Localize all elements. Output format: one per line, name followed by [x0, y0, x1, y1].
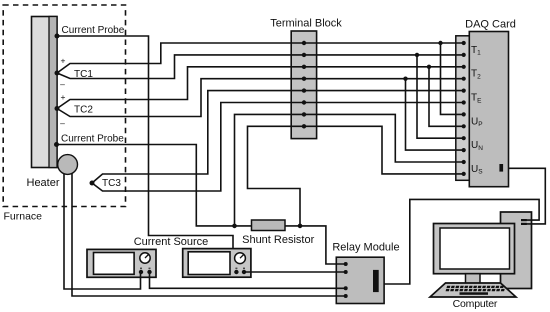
- svg-text:Heater: Heater: [27, 177, 60, 189]
- branch wire row4 to DAQ UN-: [406, 79, 464, 150]
- svg-text:+: +: [61, 55, 66, 65]
- shunt resistor body: [252, 220, 286, 231]
- heater disc: [58, 155, 78, 175]
- keyboard keys: [446, 286, 505, 295]
- DAQ card body: [469, 32, 508, 187]
- monitor stand neck: [466, 274, 481, 287]
- current probe 1 wire: [57, 36, 233, 249]
- junction node row3/UP-: [427, 65, 431, 69]
- svg-text:Furnace: Furnace: [4, 211, 43, 223]
- TC1 negative wire: [57, 55, 464, 79]
- shunt- sense wire to terminal row8: [248, 126, 464, 226]
- svg-text:Relay Module: Relay Module: [332, 242, 399, 254]
- tower port lower: [521, 223, 527, 225]
- TC2 positive wire: [57, 67, 464, 109]
- wire current source 2 to relay: [244, 271, 346, 273]
- wire DAQ to computer: [509, 168, 546, 224]
- furnace wall bar: [32, 17, 58, 168]
- current probe 2 / shunt wire: [57, 145, 346, 265]
- junction node shunt left: [232, 224, 237, 229]
- terminal block body: [291, 31, 316, 139]
- svg-text:–: –: [60, 79, 65, 89]
- TC3 negative wire: [92, 103, 464, 192]
- wire current source 1 to relay: [150, 272, 346, 288]
- TC1 positive wire: [57, 43, 464, 73]
- heater power wire 2: [72, 172, 346, 296]
- svg-text:TC1: TC1: [74, 69, 93, 80]
- branch wire row3 to DAQ UP-: [429, 67, 464, 127]
- TC2 negative wire: [57, 79, 464, 117]
- current source 2 terminals: [234, 270, 238, 274]
- shunt+ sense wire to terminal row7: [235, 114, 464, 225]
- relay module connector bar: [373, 270, 379, 292]
- svg-text:TC2: TC2: [74, 105, 93, 116]
- wire relay to computer: [384, 199, 539, 284]
- node current probe 2: [54, 142, 59, 147]
- junction node row4/UN-: [403, 77, 407, 81]
- current source 2 body: [183, 249, 251, 278]
- tower port upper: [521, 219, 527, 221]
- node current probe 1: [55, 34, 60, 39]
- branch wire row2 to DAQ UN+: [417, 55, 464, 138]
- computer tower: [501, 212, 532, 289]
- svg-text:Terminal Block: Terminal Block: [270, 18, 342, 30]
- current source 1 body: [87, 249, 156, 277]
- terminal block contact dots: [302, 41, 306, 129]
- relay terminal dots: [344, 262, 348, 298]
- DAQ output connector: [499, 164, 503, 172]
- current source 1 terminals: [139, 270, 143, 274]
- junction node shunt right: [298, 224, 303, 229]
- heater power wire 1: [64, 172, 141, 289]
- svg-text:–: –: [60, 118, 65, 128]
- furnace dashed enclosure: [3, 5, 125, 207]
- node TC3 junction: [90, 181, 95, 186]
- svg-text:Current Probe: Current Probe: [62, 25, 125, 36]
- junction node row1/UP+: [438, 41, 442, 45]
- junction node row2/UN+: [415, 53, 419, 57]
- svg-text:+: +: [61, 92, 66, 102]
- DAQ connector strip: [456, 36, 470, 181]
- TC3 positive wire: [92, 91, 464, 183]
- DAQ terminal dots: [462, 41, 466, 176]
- svg-text:Shunt Resistor: Shunt Resistor: [242, 234, 314, 246]
- keyboard: [430, 283, 516, 297]
- relay module body: [336, 257, 384, 303]
- node TC1 junction: [55, 71, 60, 76]
- svg-text:DAQ Card: DAQ Card: [465, 18, 516, 30]
- svg-text:TC3: TC3: [102, 178, 121, 189]
- svg-text:Current Probe: Current Probe: [61, 134, 124, 145]
- svg-text:Current Source: Current Source: [134, 236, 209, 248]
- node TC2 junction: [55, 106, 60, 111]
- svg-text:Computer: Computer: [453, 298, 498, 310]
- monitor screen: [440, 228, 510, 269]
- branch wire row1 to DAQ UP+: [441, 43, 464, 114]
- computer monitor: [434, 224, 515, 274]
